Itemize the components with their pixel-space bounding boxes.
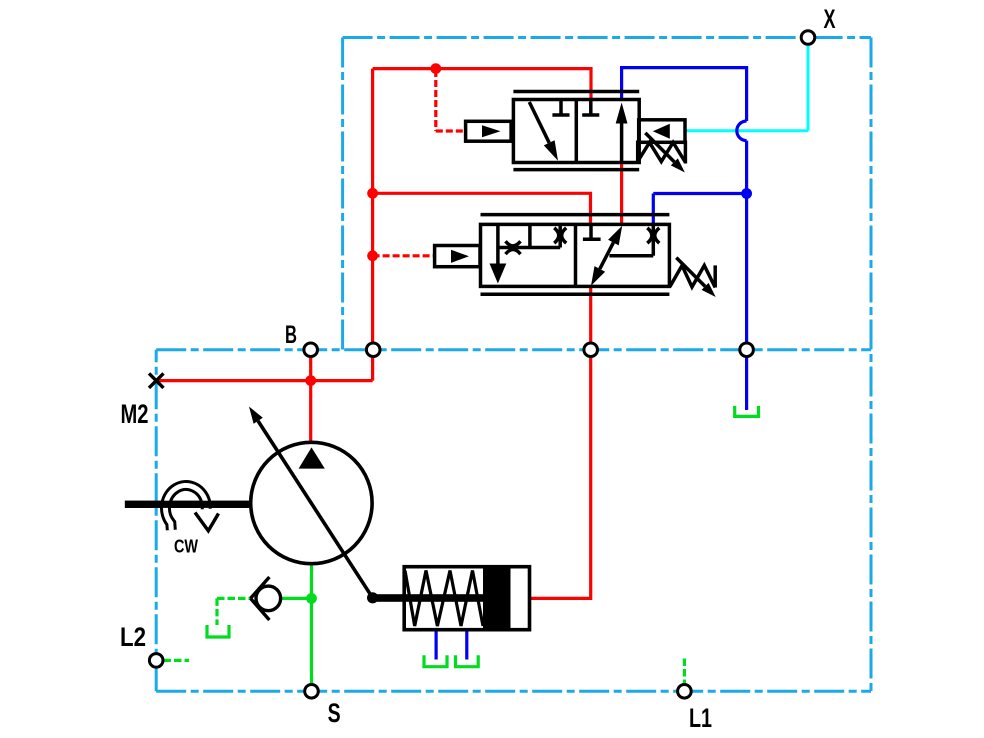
svg-text:L2: L2 [120, 622, 146, 652]
svg-text:S: S [328, 698, 341, 728]
svg-text:L1: L1 [689, 703, 712, 733]
svg-text:CW: CW [174, 537, 198, 557]
svg-text:B: B [285, 321, 297, 349]
svg-text:X: X [824, 4, 836, 34]
svg-text:M2: M2 [121, 399, 149, 429]
